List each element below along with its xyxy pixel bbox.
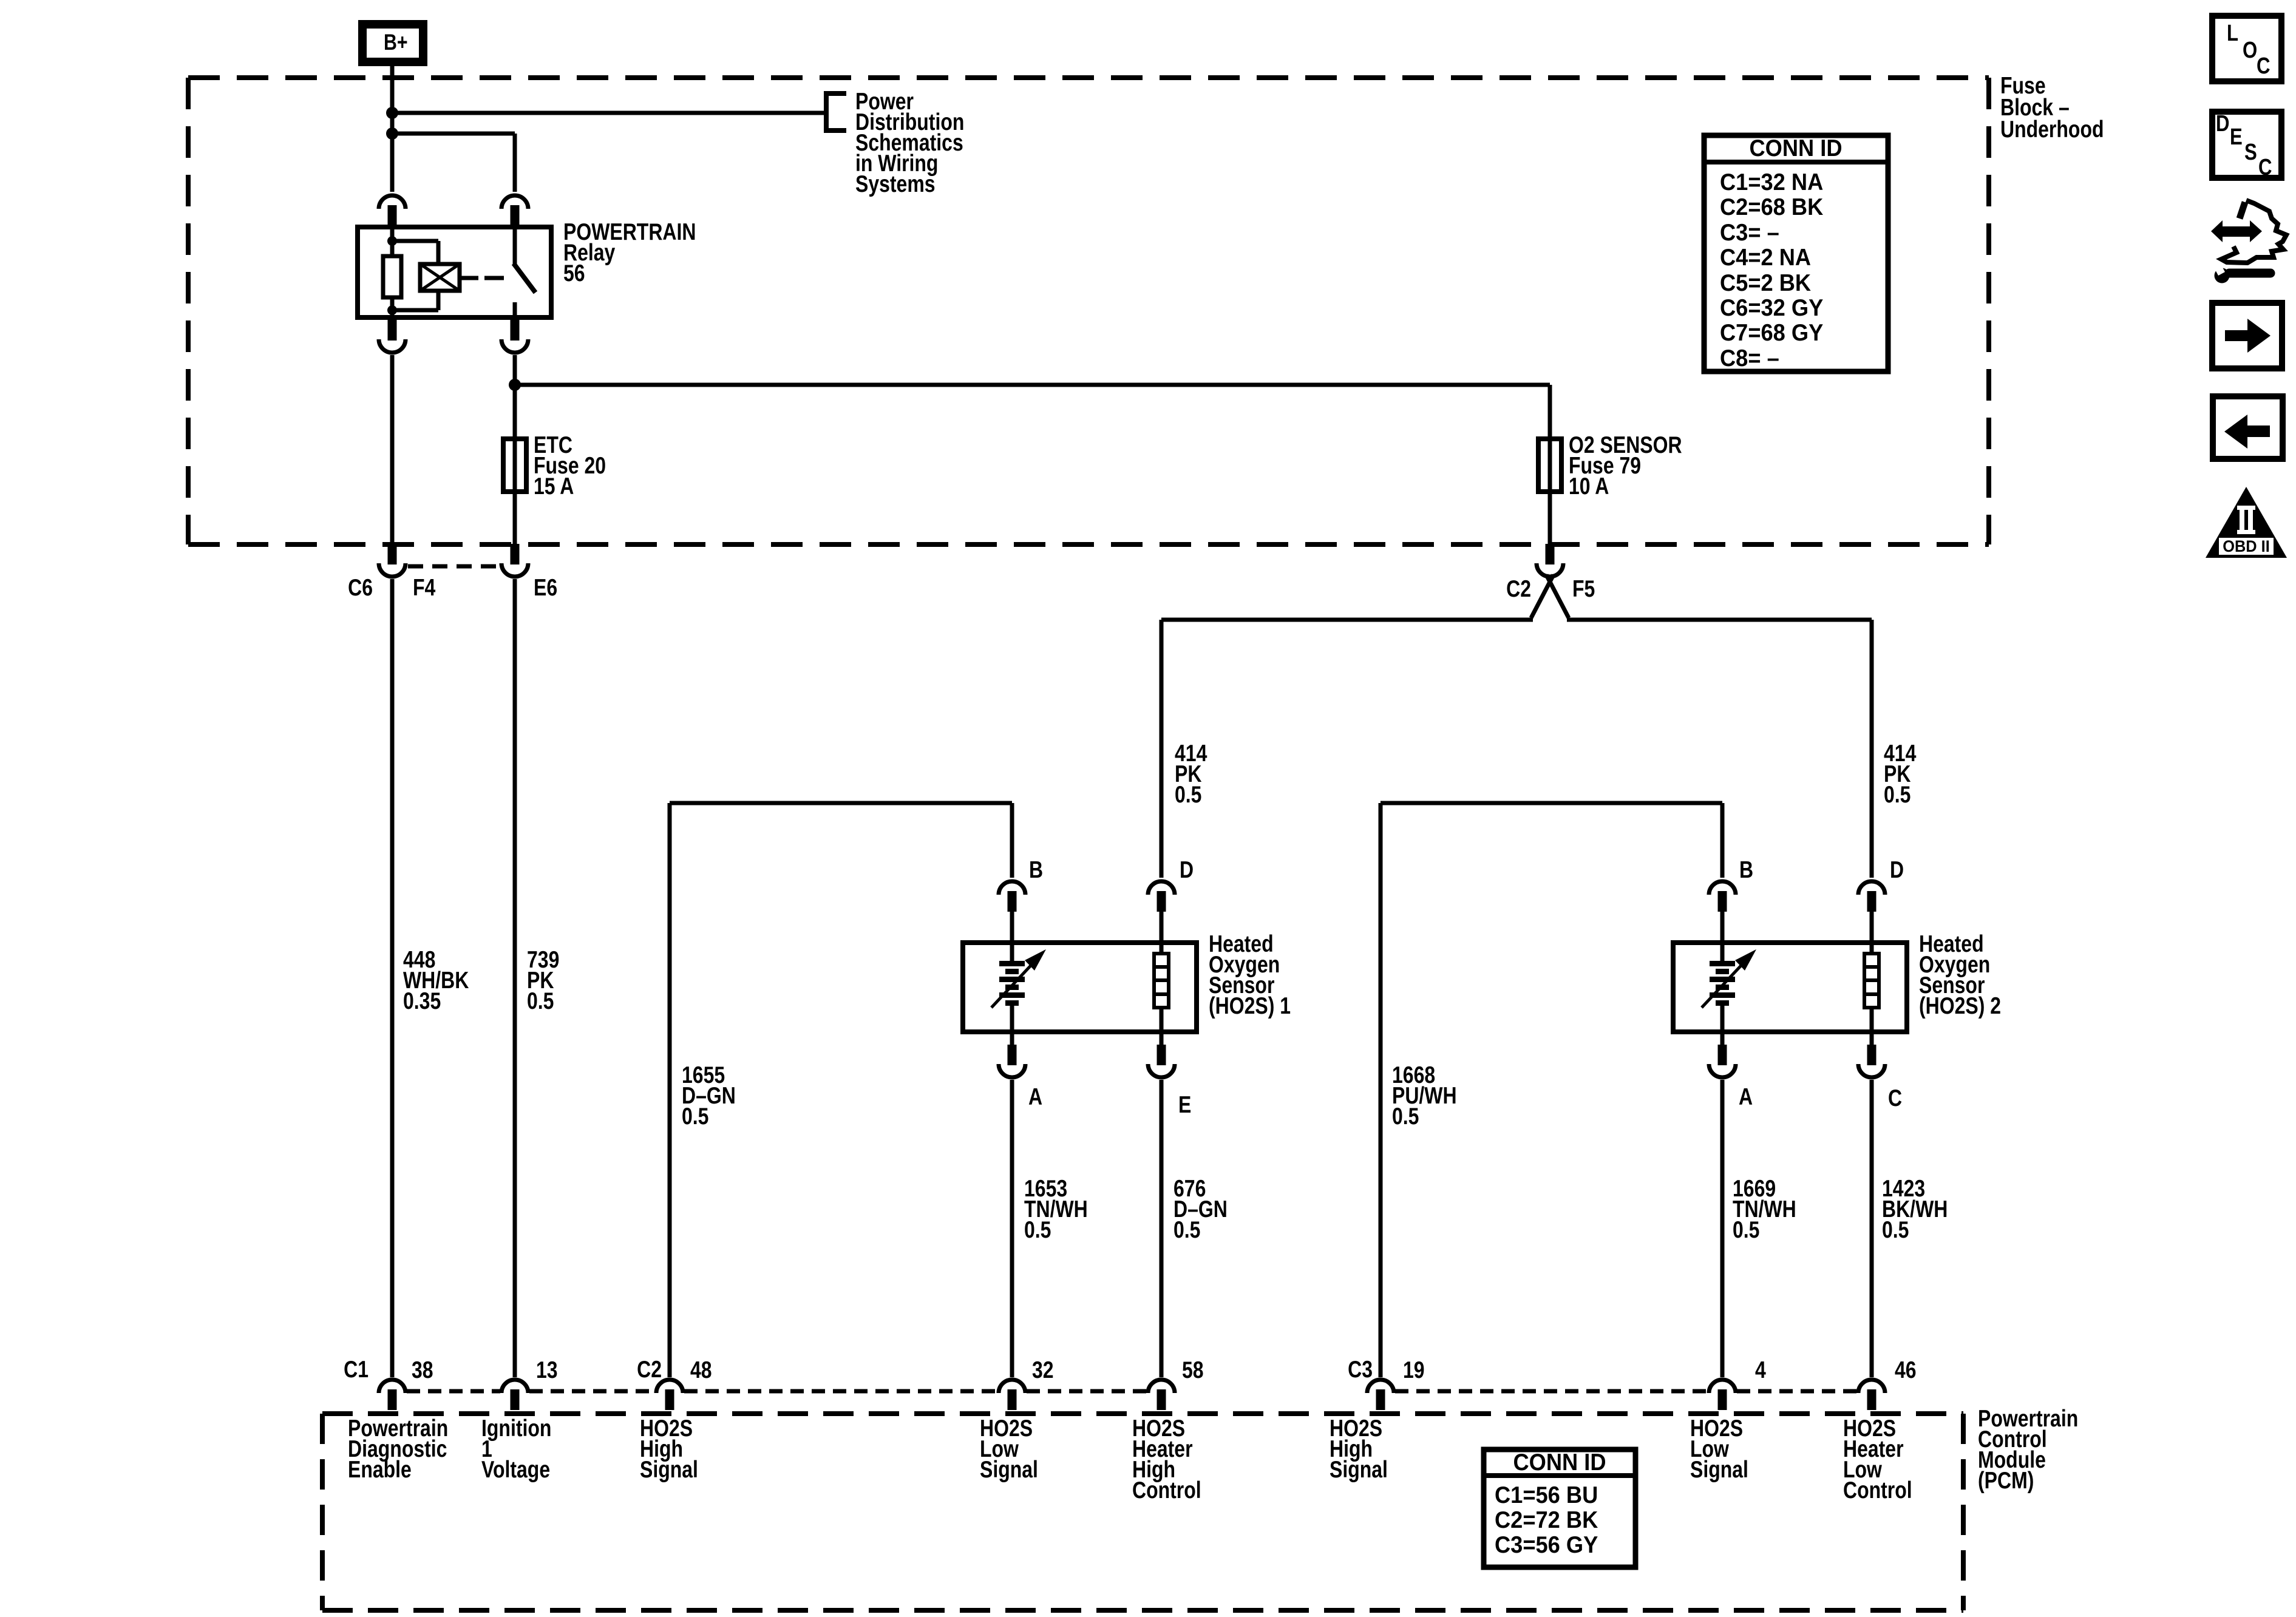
junction to O2 sensor fuse branch <box>509 379 521 391</box>
svg-text:C: C <box>1888 1085 1902 1111</box>
svg-text:S: S <box>2244 140 2257 165</box>
wire 448 WH/BK 0.35 <box>390 579 395 1377</box>
PCM pin 13 connector <box>501 1380 528 1410</box>
svg-text:C: C <box>2258 155 2272 180</box>
wire relay to ETC fuse <box>513 355 517 546</box>
ETC Fuse 20 15A <box>503 439 526 492</box>
relay bottom connector pin 1 <box>379 320 406 353</box>
powertrain control module dashed border <box>322 1411 1963 1416</box>
wire relay to C6 connector <box>390 355 395 546</box>
HO2S 1 pin D connector <box>1148 881 1175 912</box>
CONN ID table fuse block <box>1704 135 1888 371</box>
svg-text:38: 38 <box>412 1357 433 1383</box>
svg-text:A: A <box>1739 1083 1753 1110</box>
svg-text:C5=2 BK: C5=2 BK <box>1720 269 1811 296</box>
splice diagonal wires <box>1531 575 1554 618</box>
O2 SENSOR Fuse 79 10A <box>1538 439 1561 492</box>
svg-text:Enable: Enable <box>348 1456 412 1483</box>
HO2S 2 pin B connector <box>1709 881 1736 912</box>
relay resistor <box>383 256 401 297</box>
LOC icon <box>2212 16 2281 81</box>
svg-text:D: D <box>2216 111 2230 137</box>
svg-text:C3= –: C3= – <box>1720 219 1779 245</box>
connector C6 F4 <box>379 544 406 577</box>
wire B+ down to relay <box>390 62 395 192</box>
PCM pin 48 connector <box>656 1380 683 1410</box>
wire 739 PK 0.5 <box>513 579 517 1377</box>
svg-text:CONN ID: CONN ID <box>1513 1449 1606 1475</box>
wire to power distribution schematics <box>392 111 824 115</box>
powertrain relay top connector pin 2 <box>501 195 528 226</box>
svg-text:0.5: 0.5 <box>527 988 554 1014</box>
svg-text:C2=68 BK: C2=68 BK <box>1720 194 1823 220</box>
connector C2 F5 splice <box>1537 544 1563 577</box>
HO2S 2 sensing element (variable cell) <box>1720 940 1725 962</box>
relay coil feed wire <box>390 225 395 256</box>
svg-text:(HO2S) 2: (HO2S) 2 <box>1919 992 2001 1019</box>
relay coil (box with X) <box>420 264 460 291</box>
wire 1655 D-GN 0.5 <box>668 803 672 1377</box>
svg-text:C2: C2 <box>637 1356 662 1383</box>
connector E6 <box>501 544 528 577</box>
diagnostic arrow-wrench icon <box>2211 200 2286 283</box>
svg-text:0.5: 0.5 <box>682 1103 708 1130</box>
back arrow icon <box>2213 396 2283 459</box>
heated oxygen sensor HO2S 1 box <box>963 943 1197 1032</box>
svg-text:Control: Control <box>1843 1477 1912 1503</box>
svg-text:E: E <box>2230 124 2243 150</box>
wire 1668 PU/WH 0.5 <box>1379 803 1383 1377</box>
svg-text:Signal: Signal <box>1330 1456 1388 1483</box>
svg-text:0.5: 0.5 <box>1392 1103 1419 1130</box>
wire 414 PK to HO2S 1 <box>1161 618 1533 622</box>
junction node to relay switch <box>386 127 398 140</box>
svg-text:48: 48 <box>690 1357 712 1383</box>
svg-text:Voltage: Voltage <box>481 1456 550 1483</box>
svg-text:C3=56 GY: C3=56 GY <box>1495 1531 1598 1558</box>
svg-text:(HO2S) 1: (HO2S) 1 <box>1209 992 1291 1019</box>
svg-text:B: B <box>1739 856 1753 883</box>
powertrain relay top connector pin 1 <box>379 195 406 226</box>
svg-text:C3: C3 <box>1348 1356 1373 1383</box>
HO2S 1 heater element <box>1160 940 1164 954</box>
wire to relay switch pin <box>392 132 515 136</box>
HO2S 1 pin A connector <box>1010 1034 1014 1045</box>
svg-text:E: E <box>1178 1091 1191 1118</box>
HO2S 2 pin C connector <box>1870 1034 1874 1045</box>
svg-text:0.5: 0.5 <box>1884 781 1911 808</box>
svg-text:58: 58 <box>1182 1357 1204 1383</box>
svg-text:C4=2 NA: C4=2 NA <box>1720 244 1811 270</box>
svg-text:OBD II: OBD II <box>2223 537 2270 555</box>
connector body dotted line <box>408 564 500 569</box>
svg-text:C: C <box>2257 53 2271 79</box>
relay coil parallel branch wire <box>392 239 438 243</box>
wire 1423 BK/WH 0.5 <box>1870 1080 1874 1377</box>
svg-text:C1: C1 <box>344 1356 369 1383</box>
PCM pin 32 connector <box>999 1380 1025 1410</box>
svg-text:B+: B+ <box>384 30 408 55</box>
svg-text:L: L <box>2227 21 2238 46</box>
HO2S 1 pin E connector <box>1160 1034 1164 1045</box>
svg-text:C6: C6 <box>348 574 373 601</box>
wire 676 D-GN 0.5 <box>1160 1080 1164 1377</box>
svg-text:C2: C2 <box>1506 575 1531 602</box>
svg-text:Signal: Signal <box>980 1456 1038 1483</box>
svg-text:19: 19 <box>1403 1357 1425 1383</box>
battery B+ terminal <box>362 24 423 62</box>
power distribution bracket <box>826 93 846 131</box>
junction node to power distribution <box>386 107 398 119</box>
svg-text:CONN ID: CONN ID <box>1749 135 1842 161</box>
svg-text:C2=72 BK: C2=72 BK <box>1495 1507 1598 1533</box>
PCM pin 46 connector <box>1858 1380 1885 1410</box>
svg-text:Systems: Systems <box>855 171 936 197</box>
svg-text:Control: Control <box>1132 1477 1201 1503</box>
svg-text:(PCM): (PCM) <box>1978 1467 2034 1494</box>
CONN ID table PCM <box>1484 1449 1635 1567</box>
relay bottom connector pin 2 <box>501 320 528 353</box>
wire 1669 TN/WH 0.5 <box>1720 1080 1725 1377</box>
svg-text:0.5: 0.5 <box>1882 1216 1909 1243</box>
HO2S 2 pin A connector <box>1720 1034 1725 1045</box>
svg-text:Signal: Signal <box>1690 1456 1748 1483</box>
PCM connector dotted lines <box>407 1389 500 1394</box>
svg-text:0.35: 0.35 <box>403 988 441 1014</box>
svg-text:0.5: 0.5 <box>1175 781 1201 808</box>
svg-text:C8= –: C8= – <box>1720 345 1779 371</box>
svg-text:Signal: Signal <box>640 1456 698 1483</box>
HO2S 1 pin B connector <box>999 881 1025 912</box>
PCM pin 4 connector <box>1709 1380 1736 1410</box>
heated oxygen sensor HO2S 2 box <box>1673 943 1907 1032</box>
fuse block underhood dashed border <box>188 75 1989 80</box>
wire 1653 TN/WH 0.5 <box>1010 1080 1014 1377</box>
svg-text:F4: F4 <box>413 574 435 601</box>
svg-text:10 A: 10 A <box>1569 473 1609 500</box>
svg-text:C7=68 GY: C7=68 GY <box>1720 319 1823 345</box>
HO2S 2 pin D connector <box>1858 881 1885 912</box>
relay switch <box>513 225 517 264</box>
svg-text:A: A <box>1028 1083 1042 1110</box>
svg-text:D: D <box>1180 856 1194 883</box>
relay coil to switch mechanical link <box>460 276 478 280</box>
wire to O2 sensor fuse <box>515 383 1550 387</box>
svg-text:32: 32 <box>1032 1357 1054 1383</box>
svg-text:C6=32 GY: C6=32 GY <box>1720 294 1823 320</box>
svg-text:56: 56 <box>563 260 585 286</box>
svg-text:0.5: 0.5 <box>1733 1216 1759 1243</box>
PCM pin 19 connector <box>1367 1380 1394 1410</box>
svg-text:E6: E6 <box>534 574 557 601</box>
svg-text:D: D <box>1890 856 1904 883</box>
svg-text:0.5: 0.5 <box>1024 1216 1051 1243</box>
svg-text:F5: F5 <box>1572 575 1595 602</box>
HO2S 1 sensing element (variable cell) <box>1010 940 1014 962</box>
PCM pin 58 connector <box>1148 1380 1175 1410</box>
OBD II icon <box>2206 487 2287 558</box>
svg-text:B: B <box>1029 856 1043 883</box>
svg-text:O: O <box>2243 38 2257 63</box>
forward arrow icon <box>2212 303 2282 368</box>
svg-text:15 A: 15 A <box>534 473 574 500</box>
DESC icon <box>2212 112 2281 178</box>
svg-text:0.5: 0.5 <box>1173 1216 1200 1243</box>
wire 414 PK to HO2S 2 <box>1567 618 1872 622</box>
PCM pin 38 connector <box>379 1380 406 1410</box>
relay K: POWERTRAIN Relay 56 box <box>358 227 551 317</box>
svg-text:4: 4 <box>1755 1357 1766 1383</box>
HO2S 2 heater element <box>1870 940 1874 954</box>
svg-text:Underhood: Underhood <box>2000 116 2104 143</box>
svg-text:C1=56 BU: C1=56 BU <box>1495 1482 1598 1508</box>
svg-text:C1=32 NA: C1=32 NA <box>1720 169 1823 195</box>
svg-text:46: 46 <box>1895 1357 1917 1383</box>
svg-text:13: 13 <box>536 1357 558 1383</box>
